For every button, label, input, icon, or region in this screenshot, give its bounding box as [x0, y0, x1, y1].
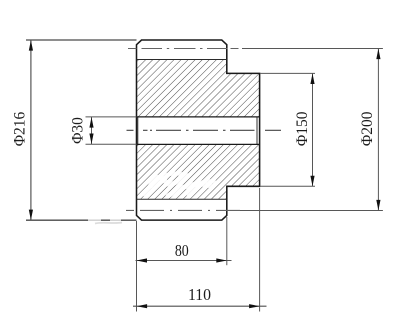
watermark fade on extension line — [88, 219, 121, 222]
section hatch lower (gear rim + hub) — [137, 144, 260, 199]
dim phi150 extension top — [260, 72, 315, 74]
dim phi216 arrow bottom — [29, 210, 33, 221]
svg-text:80: 80 — [175, 242, 189, 260]
dim phi200 arrow top — [376, 49, 380, 60]
dim phi150 extension bottom — [260, 185, 315, 187]
root line bottom — [137, 198, 227, 200]
pitch centerline bottom (dash-dot) — [126, 209, 240, 211]
watermark streaks over lower hatch — [146, 174, 216, 197]
dim 80 extension right — [226, 217, 228, 265]
svg-text:110: 110 — [188, 286, 211, 304]
dim phi216 arrow top — [29, 40, 33, 51]
dim 110 arrow left — [137, 304, 148, 308]
dim phi200 extension bottom — [240, 209, 383, 211]
dim 80 arrow left — [137, 258, 148, 262]
dim phi216 extension top — [26, 39, 137, 41]
dim phi30 arrow top — [89, 117, 93, 128]
bore chamfer line left — [137, 117, 139, 144]
section hatch upper (gear rim + hub) — [137, 60, 260, 117]
dim 80 extension left — [136, 221, 138, 312]
dim phi216 line — [30, 40, 32, 220]
svg-text:Φ216: Φ216 — [12, 111, 29, 146]
bore bottom line — [137, 143, 260, 145]
dim 110 line — [133, 305, 267, 307]
dim phi216 extension bottom — [26, 219, 137, 221]
dim 110 arrow right — [249, 304, 260, 308]
dim phi30 arrow bottom — [89, 134, 93, 145]
bore top line — [137, 116, 260, 118]
dim phi200 line — [377, 49, 379, 211]
dim 80 line — [136, 260, 232, 262]
svg-text:Φ30: Φ30 — [70, 117, 87, 144]
dim 80 arrow right — [216, 258, 227, 262]
dim phi150 line — [312, 73, 314, 186]
gear body outline — [137, 40, 260, 220]
dim phi30 extension bottom — [86, 143, 137, 145]
dim phi200 arrow bottom — [376, 200, 380, 211]
pitch centerline top (dash-dot) — [128, 48, 239, 50]
watermark smudge below body — [95, 223, 122, 224]
svg-text:Φ150: Φ150 — [294, 111, 311, 146]
dim phi200 extension top — [242, 48, 383, 50]
root line top — [137, 59, 227, 61]
svg-text:Φ200: Φ200 — [359, 111, 376, 146]
dim 110 extension right — [259, 188, 261, 312]
dim phi30 line — [91, 117, 93, 144]
dim phi150 arrow bottom — [310, 176, 314, 187]
dim phi30 extension top — [86, 116, 137, 118]
bore chamfer line right — [256, 117, 258, 144]
dim phi150 arrow top — [310, 74, 314, 85]
axis centerline (dash-dot) — [127, 129, 282, 131]
